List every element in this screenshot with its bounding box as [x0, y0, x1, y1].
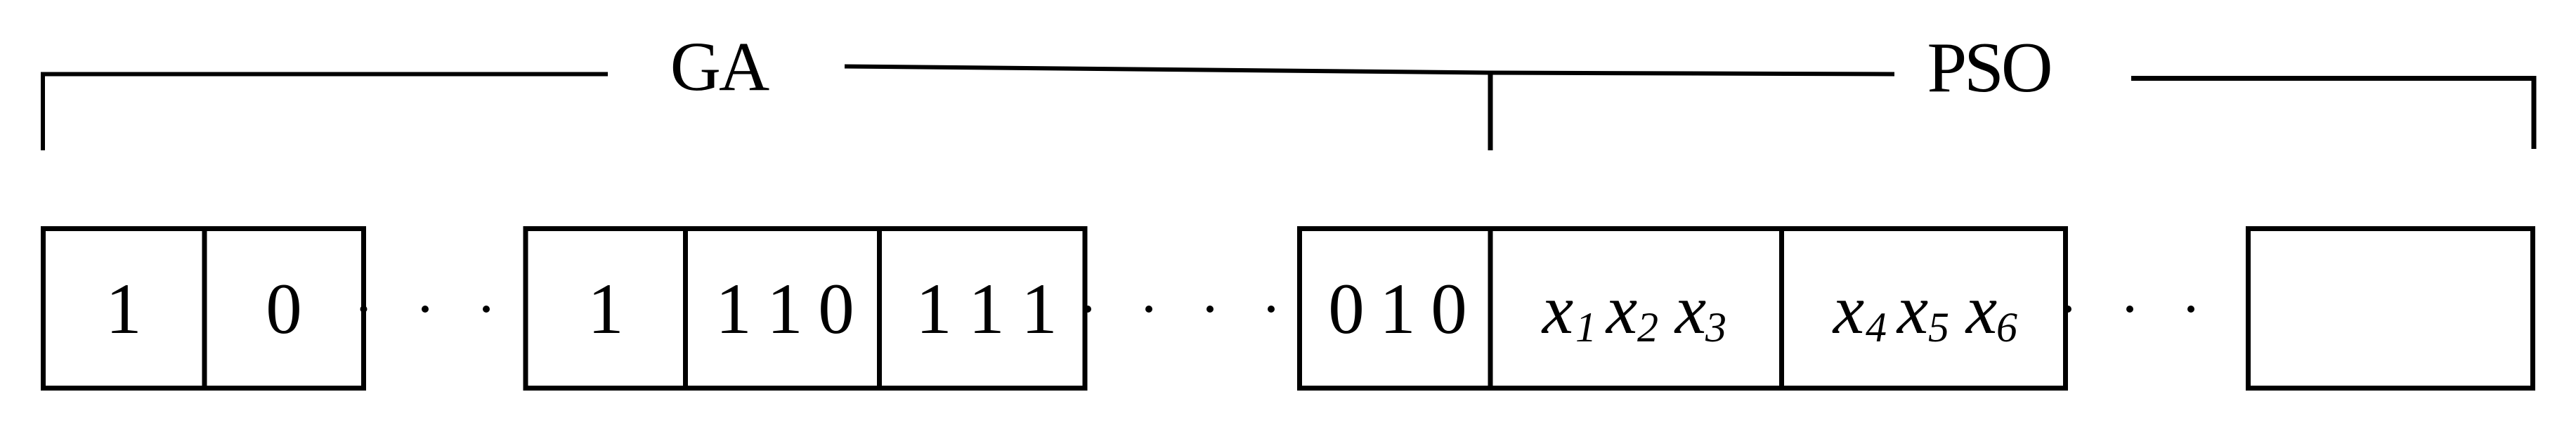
divider group3 b — [1779, 229, 1784, 388]
svg-text:6: 6 — [1996, 304, 2017, 351]
box group 3 — [1300, 229, 2066, 388]
divider group3 a — [1488, 229, 1493, 388]
svg-text:3: 3 — [1705, 304, 1726, 351]
svg-text:4: 4 — [1866, 304, 1887, 351]
empty box 4 — [2249, 229, 2533, 388]
divider group2 b — [877, 229, 882, 388]
dots set 2 — [1084, 306, 1091, 313]
svg-text:x: x — [1896, 270, 1928, 348]
dots set 3 — [2064, 306, 2071, 313]
svg-text:PSO: PSO — [1927, 28, 2050, 107]
PSO bracket right — [2131, 79, 2534, 150]
svg-text:GA: GA — [670, 27, 769, 105]
svg-text:0: 0 — [266, 269, 302, 349]
svg-text:5: 5 — [1928, 304, 1949, 351]
svg-text:1: 1 — [715, 269, 752, 349]
svg-text:1: 1 — [1575, 304, 1596, 351]
svg-text:1: 1 — [916, 269, 952, 349]
svg-text:2: 2 — [1637, 304, 1658, 351]
svg-text:1: 1 — [767, 269, 803, 349]
svg-text:0: 0 — [1328, 269, 1365, 349]
divider group1 — [202, 229, 207, 388]
svg-text:0: 0 — [1431, 269, 1467, 349]
svg-text:1: 1 — [1379, 269, 1416, 349]
svg-text:1: 1 — [105, 269, 142, 349]
svg-text:x: x — [1832, 270, 1864, 348]
GA bracket left — [43, 74, 608, 151]
dots set 1 — [360, 306, 367, 313]
GA/PSO middle line — [845, 67, 1894, 74]
divider group2 a — [683, 229, 688, 388]
box group 2 — [526, 229, 1085, 388]
svg-text:1: 1 — [587, 269, 624, 349]
svg-text:x: x — [1541, 270, 1573, 348]
svg-text:x: x — [1965, 270, 1997, 348]
svg-text:1: 1 — [1021, 269, 1058, 349]
box group 1 — [44, 229, 364, 388]
svg-text:1: 1 — [968, 269, 1005, 349]
svg-text:0: 0 — [818, 269, 854, 349]
svg-text:x: x — [1605, 270, 1637, 348]
divider tick between GA and PSO — [1488, 72, 1493, 150]
svg-text:x: x — [1674, 270, 1706, 348]
